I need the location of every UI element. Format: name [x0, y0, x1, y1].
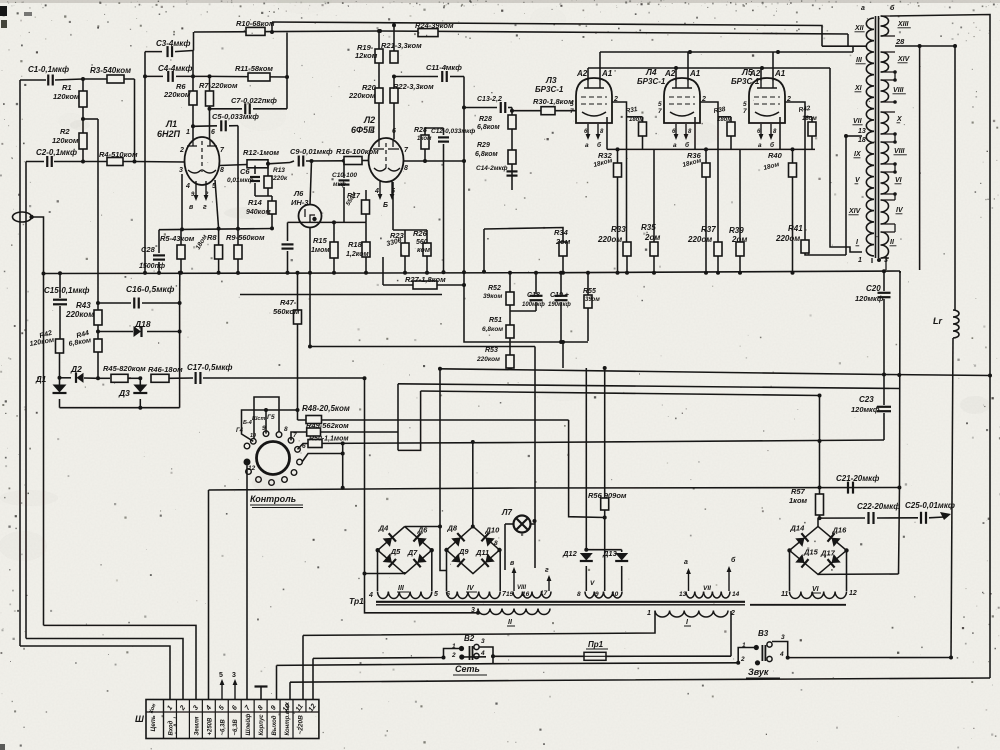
svg-text:R16-100ком: R16-100ком: [336, 147, 379, 156]
svg-text:Д3: Д3: [118, 388, 130, 398]
svg-text:Д4: Д4: [378, 524, 389, 533]
svg-text:Д15: Д15: [803, 547, 819, 556]
svg-text:2: 2: [179, 147, 184, 154]
svg-text:R49-562ком: R49-562ком: [306, 421, 349, 430]
svg-text:6,8ком: 6,8ком: [475, 151, 499, 158]
svg-text:2ом: 2ом: [644, 233, 660, 242]
svg-text:Корпус: Корпус: [259, 714, 265, 736]
svg-text:А2: А2: [576, 69, 588, 78]
svg-text:Д5: Д5: [390, 547, 401, 556]
svg-text:R13: R13: [273, 167, 285, 174]
svg-text:С14-2мкф: С14-2мкф: [476, 165, 508, 172]
svg-text:XII: XII: [854, 25, 865, 32]
svg-text:Д2: Д2: [70, 364, 82, 374]
svg-text:Контроль: Контроль: [250, 494, 296, 504]
svg-text:39ком: 39ком: [483, 293, 502, 300]
svg-text:С13-2,2: С13-2,2: [477, 96, 502, 103]
svg-text:3: 3: [232, 672, 236, 679]
svg-text:1: 1: [186, 129, 190, 136]
svg-text:9: 9: [595, 591, 599, 598]
svg-text:39ом: 39ом: [585, 297, 600, 303]
svg-text:Д14: Д14: [790, 523, 806, 532]
svg-text:Д16: Д16: [832, 525, 848, 534]
svg-text:XIV: XIV: [897, 56, 911, 63]
svg-text:1: 1: [452, 643, 456, 650]
svg-text:1ком: 1ком: [417, 136, 432, 142]
svg-text:2ом: 2ом: [731, 235, 747, 244]
svg-text:18ом: 18ом: [717, 117, 732, 123]
svg-text:С23: С23: [859, 395, 874, 404]
svg-text:R8: R8: [207, 233, 217, 242]
svg-text:Звук: Звук: [748, 667, 769, 677]
svg-text:~220В: ~220В: [297, 715, 304, 735]
svg-text:220к: 220к: [272, 175, 288, 182]
svg-text:Д8: Д8: [447, 523, 458, 532]
svg-text:С1-0,1мкф: С1-0,1мкф: [28, 65, 69, 74]
svg-text:18ом: 18ом: [802, 116, 817, 122]
svg-text:4: 4: [480, 650, 485, 657]
svg-text:Тр1: Тр1: [349, 596, 364, 606]
svg-text:4: 4: [368, 592, 373, 599]
svg-text:190мкф: 190мкф: [548, 301, 571, 308]
svg-text:R46-18ом: R46-18ом: [148, 365, 183, 374]
svg-text:R28: R28: [414, 127, 427, 134]
svg-text:мкф: мкф: [333, 181, 346, 188]
svg-text:8: 8: [220, 167, 224, 174]
svg-text:12ком: 12ком: [355, 51, 378, 60]
svg-text:а: а: [861, 5, 865, 12]
svg-text:С17-0,5мкф: С17-0,5мкф: [187, 363, 233, 372]
svg-text:1: 1: [647, 610, 651, 617]
svg-text:1ком: 1ком: [789, 496, 808, 505]
svg-text:С16-0,5мкф: С16-0,5мкф: [126, 284, 175, 294]
svg-text:6Ф5П: 6Ф5П: [351, 125, 375, 135]
svg-text:С10-100: С10-100: [332, 172, 357, 179]
svg-text:3: 3: [179, 167, 183, 174]
svg-text:18: 18: [858, 137, 866, 144]
svg-text:R34: R34: [554, 228, 569, 237]
svg-text:R15: R15: [313, 236, 328, 245]
svg-text:R11-58ком: R11-58ком: [235, 64, 273, 73]
svg-text:~6,3В: ~6,3В: [233, 719, 239, 736]
svg-text:6: 6: [211, 129, 215, 136]
svg-text:R53: R53: [485, 347, 498, 354]
svg-text:120ком: 120ком: [53, 92, 80, 101]
svg-text:1мом: 1мом: [311, 247, 330, 254]
svg-text:г: г: [545, 567, 549, 574]
svg-text:220ком: 220ком: [348, 91, 376, 100]
svg-text:Контр.вых: Контр.вых: [285, 701, 291, 735]
svg-text:VIII: VIII: [517, 585, 526, 591]
svg-text:Г5: Г5: [267, 414, 275, 421]
svg-text:120мкф: 120мкф: [851, 405, 880, 414]
svg-text:R41: R41: [788, 224, 803, 233]
svg-text:С4-4мкф: С4-4мкф: [158, 64, 192, 73]
svg-text:С25-0,01мкф: С25-0,01мкф: [905, 501, 955, 510]
svg-text:R30-1,8ком: R30-1,8ком: [533, 97, 574, 106]
svg-text:10: 10: [250, 433, 256, 439]
svg-text:R29: R29: [477, 142, 490, 149]
svg-text:220ком: 220ком: [476, 356, 500, 363]
svg-text:R47-: R47-: [280, 298, 297, 307]
svg-text:R55: R55: [583, 288, 596, 295]
svg-text:Д7: Д7: [407, 548, 418, 557]
svg-text:С11-4мкф: С11-4мкф: [426, 63, 462, 72]
svg-text:4: 4: [185, 183, 190, 190]
svg-text:Lr: Lr: [933, 316, 942, 326]
svg-text:Шлейф: Шлейф: [245, 713, 252, 736]
svg-text:6,8ком: 6,8ком: [482, 326, 503, 333]
svg-text:В3: В3: [758, 629, 769, 638]
svg-text:С9-0,01мкф: С9-0,01мкф: [290, 147, 333, 156]
svg-text:8: 8: [404, 165, 408, 172]
svg-text:Вход: Вход: [168, 720, 174, 735]
svg-text:6: 6: [302, 443, 306, 450]
svg-text:С28: С28: [141, 245, 156, 254]
svg-text:XI: XI: [854, 85, 863, 92]
svg-text:Сеть: Сеть: [455, 664, 480, 674]
svg-text:Д1: Д1: [35, 375, 47, 384]
svg-text:С18: С18: [527, 292, 540, 299]
svg-text:а: а: [585, 142, 589, 149]
svg-text:220ом: 220ом: [687, 235, 712, 244]
svg-text:5: 5: [434, 591, 438, 598]
svg-text:7: 7: [293, 432, 297, 439]
svg-text:Земля: Земля: [194, 716, 200, 735]
svg-text:220ком: 220ком: [163, 90, 191, 99]
svg-text:7: 7: [570, 108, 574, 115]
svg-text:2: 2: [204, 192, 209, 198]
svg-text:БР3С-1: БР3С-1: [731, 77, 760, 86]
svg-text:3: 3: [471, 607, 475, 614]
svg-text:R43: R43: [76, 301, 91, 310]
svg-text:5: 5: [658, 101, 662, 108]
svg-text:R35: R35: [641, 223, 656, 232]
svg-text:R33: R33: [611, 225, 626, 234]
svg-text:Д18: Д18: [134, 319, 151, 329]
svg-text:R14: R14: [248, 198, 263, 207]
svg-text:R57: R57: [791, 487, 806, 496]
svg-text:а: а: [684, 559, 688, 566]
svg-text:Д11: Д11: [475, 548, 489, 557]
svg-text:R48-20,5ком: R48-20,5ком: [302, 404, 350, 413]
svg-text:Д12: Д12: [562, 549, 578, 558]
svg-text:15: 15: [506, 591, 514, 598]
svg-text:С15-0,1мкф: С15-0,1мкф: [44, 286, 90, 295]
svg-text:VIII: VIII: [894, 148, 906, 155]
svg-text:R28: R28: [479, 116, 492, 123]
svg-text:17: 17: [540, 590, 548, 597]
svg-text:б: б: [731, 556, 736, 564]
svg-text:220ком: 220ком: [65, 310, 94, 319]
svg-text:R4-510ком: R4-510ком: [99, 150, 138, 159]
svg-text:12: 12: [248, 465, 256, 472]
svg-text:6,8ком: 6,8ком: [477, 124, 501, 131]
svg-text:а: а: [673, 142, 677, 149]
svg-text:R3-540ком: R3-540ком: [90, 66, 131, 75]
svg-text:С22-20мкф: С22-20мкф: [857, 502, 900, 511]
svg-text:С21-20мкф: С21-20мкф: [836, 474, 879, 483]
svg-text:ИН-3: ИН-3: [291, 198, 309, 207]
svg-text:120мкф: 120мкф: [855, 294, 884, 303]
svg-text:8: 8: [577, 591, 581, 598]
svg-text:R39: R39: [729, 226, 744, 235]
svg-text:С2-0,1мкф: С2-0,1мкф: [36, 148, 77, 157]
svg-text:VII: VII: [703, 585, 711, 592]
svg-text:Л4: Л4: [645, 67, 657, 77]
svg-text:БР3С-1: БР3С-1: [637, 77, 666, 86]
svg-text:С12-0,033мкф: С12-0,033мкф: [431, 128, 475, 135]
svg-text:Пр1: Пр1: [588, 640, 604, 649]
svg-text:VIII: VIII: [893, 87, 905, 94]
svg-text:БР3С-1: БР3С-1: [535, 85, 564, 94]
svg-text:R10-68ком: R10-68ком: [236, 19, 275, 28]
svg-text:16: 16: [522, 591, 530, 598]
svg-text:28: 28: [895, 37, 905, 46]
svg-text:13: 13: [858, 128, 866, 135]
svg-text:1: 1: [742, 642, 746, 649]
svg-text:R7-220ком: R7-220ком: [199, 81, 238, 90]
svg-text:Л3: Л3: [545, 75, 557, 85]
svg-text:18ом: 18ом: [629, 117, 644, 123]
svg-text:А1: А1: [774, 69, 786, 78]
svg-text:5: 5: [219, 672, 223, 679]
svg-text:3: 3: [781, 634, 785, 641]
svg-text:R21-3,3ком: R21-3,3ком: [381, 41, 422, 50]
svg-text:Б-4: Б-4: [243, 420, 252, 426]
svg-text:6: 6: [446, 591, 450, 598]
svg-text:XIII: XIII: [897, 21, 910, 28]
svg-text:R51: R51: [489, 317, 502, 324]
svg-text:1: 1: [858, 257, 862, 264]
svg-text:VI: VI: [895, 177, 903, 184]
svg-text:С3-4мкф: С3-4мкф: [156, 39, 190, 48]
svg-text:С19 +: С19 +: [550, 292, 569, 299]
svg-text:Выход: Выход: [272, 715, 278, 735]
svg-text:4: 4: [779, 651, 784, 658]
svg-text:120ком: 120ком: [52, 136, 79, 145]
svg-text:5: 5: [743, 101, 747, 108]
svg-text:Ш: Ш: [135, 714, 144, 724]
svg-text:0,01мкф: 0,01мкф: [227, 177, 254, 184]
svg-text:R52: R52: [488, 285, 501, 292]
svg-text:13: 13: [679, 591, 687, 598]
svg-text:4: 4: [374, 188, 379, 195]
svg-text:а: а: [758, 142, 762, 149]
svg-text:560ком: 560ком: [273, 307, 300, 316]
svg-text:Цепь: Цепь: [150, 715, 157, 731]
svg-text:14: 14: [732, 591, 740, 598]
svg-text:R40: R40: [768, 151, 783, 160]
svg-text:Л7: Л7: [501, 508, 512, 517]
svg-text:Г4: Г4: [236, 428, 244, 434]
svg-text:А1: А1: [689, 69, 701, 78]
svg-text:~6,3В: ~6,3В: [220, 719, 226, 736]
svg-text:3: 3: [481, 638, 485, 645]
svg-text:R22-3,3ком: R22-3,3ком: [393, 82, 434, 91]
svg-text:7: 7: [658, 108, 662, 115]
svg-text:Д17: Д17: [820, 548, 836, 557]
svg-text:VI: VI: [812, 586, 820, 593]
svg-text:8: 8: [284, 426, 288, 433]
svg-text:Л5: Л5: [741, 67, 753, 77]
svg-text:ком: ком: [417, 247, 431, 254]
svg-text:R18: R18: [348, 240, 363, 249]
svg-text:А2: А2: [664, 69, 676, 78]
svg-text:2: 2: [451, 652, 456, 659]
svg-text:XIV: XIV: [848, 208, 862, 215]
svg-text:100мкф: 100мкф: [522, 301, 545, 308]
svg-text:+250В: +250В: [207, 717, 213, 736]
svg-text:1,2ком: 1,2ком: [346, 251, 370, 258]
svg-text:6Н2П: 6Н2П: [157, 129, 181, 139]
svg-text:2: 2: [740, 656, 745, 663]
svg-text:Б: Б: [383, 202, 388, 209]
svg-text:220ом: 220ом: [775, 234, 800, 243]
svg-text:Л6: Л6: [293, 189, 304, 198]
svg-text:11: 11: [781, 591, 788, 598]
svg-text:Д13: Д13: [602, 549, 618, 558]
svg-text:7: 7: [743, 108, 747, 115]
svg-text:R12-1мом: R12-1мом: [243, 148, 280, 157]
svg-text:Л1: Л1: [165, 119, 177, 129]
svg-text:С6: С6: [240, 167, 250, 176]
svg-text:В2: В2: [464, 634, 475, 643]
svg-text:V: V: [590, 580, 595, 587]
svg-text:г: г: [203, 204, 207, 211]
svg-text:R27-1,8ком: R27-1,8ком: [405, 275, 446, 284]
svg-text:R56 909ом: R56 909ом: [588, 491, 627, 500]
svg-text:2ом: 2ом: [555, 237, 571, 246]
svg-text:220ом: 220ом: [597, 235, 622, 244]
svg-text:Л2: Л2: [363, 115, 375, 125]
svg-text:R9-560ком: R9-560ком: [226, 233, 265, 242]
svg-text:VII: VII: [853, 118, 863, 125]
svg-text:R37: R37: [701, 225, 716, 234]
svg-text:Д9: Д9: [458, 547, 469, 556]
svg-text:R26: R26: [413, 229, 428, 238]
svg-text:С20: С20: [866, 284, 881, 293]
svg-text:12: 12: [849, 590, 857, 597]
svg-text:560: 560: [416, 239, 428, 246]
svg-text:10: 10: [611, 591, 619, 598]
svg-text:R1: R1: [62, 83, 72, 92]
svg-text:А1: А1: [601, 69, 613, 78]
